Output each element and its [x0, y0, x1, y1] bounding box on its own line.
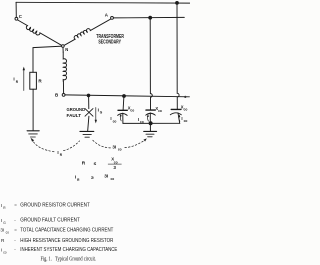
- svg-text:co: co: [184, 119, 188, 123]
- wire phase C drop: [177, 3, 179, 109]
- wire phase B bus: [65, 95, 189, 97]
- wire N to winding: [62, 46, 64, 52]
- fault X: [85, 109, 93, 117]
- terminal B: [62, 94, 65, 97]
- winding N-B: [63, 52, 66, 81]
- svg-text:Fig. 1. Typical Ground circu: Fig. 1. Typical Ground circuit.: [41, 256, 97, 262]
- svg-text:3I: 3I: [112, 144, 116, 149]
- svg-text:SECONDARY: SECONDARY: [98, 40, 121, 46]
- svg-text:=: =: [14, 203, 17, 208]
- arrow Ico3: [178, 116, 181, 121]
- ground capacitors: [144, 131, 157, 136]
- svg-text:I: I: [110, 116, 111, 121]
- svg-text:co: co: [3, 250, 7, 254]
- svg-text:N: N: [65, 47, 68, 52]
- capacitor CB upper wire: [122, 96, 125, 110]
- svg-text:I: I: [57, 150, 58, 155]
- terminal A: [111, 17, 114, 20]
- node capacitor ground tap: [149, 121, 153, 125]
- winding N-A: [61, 16, 112, 46]
- svg-text:3I: 3I: [0, 228, 4, 233]
- capacitor CC plates: [171, 108, 181, 110]
- svg-text:I: I: [1, 203, 2, 208]
- svg-text:I: I: [1, 218, 2, 223]
- wire resistor to ground: [32, 89, 34, 130]
- svg-text:=: =: [14, 227, 17, 232]
- arrow IG: [95, 108, 97, 121]
- dashed arc fault-ground to 3Ico: [93, 140, 111, 148]
- svg-text:co: co: [158, 109, 162, 113]
- dashed arc 3Ico to capacitor-ground: [125, 140, 146, 148]
- capacitor CA plates: [146, 109, 155, 111]
- svg-text:R: R: [82, 160, 86, 166]
- node ground fault tap: [87, 94, 91, 98]
- resistor R: [30, 72, 37, 89]
- wire fault drop: [88, 96, 90, 109]
- svg-text:co: co: [118, 148, 122, 152]
- svg-text:co: co: [130, 108, 134, 112]
- node phase A tap: [148, 16, 152, 20]
- capacitor CC lower wire: [178, 113, 180, 123]
- capacitor CB lower wire: [122, 113, 124, 123]
- wire phase A drop: [150, 18, 152, 110]
- svg-text:co: co: [6, 231, 10, 235]
- svg-text:TOTAL CAPACITANCE CHARGING CUR: TOTAL CAPACITANCE CHARGING CURRENT: [20, 228, 114, 234]
- wire winding to terminal B: [62, 81, 64, 93]
- svg-text:INHERENT SYSTEM CHARGING CAPAC: INHERENT SYSTEM CHARGING CAPACITANCE: [20, 247, 117, 253]
- svg-text:HIGH RESISTANCE GROUNDING RESI: HIGH RESISTANCE GROUNDING RESISTOR: [20, 238, 113, 244]
- wire capacitor bottom bus: [123, 122, 180, 124]
- node top-right junction: [175, 1, 179, 5]
- capacitor CB plates: [118, 109, 127, 111]
- ground fault: [80, 131, 94, 137]
- svg-text:co: co: [111, 177, 115, 181]
- capacitor CA lower wire: [149, 113, 151, 123]
- wire N to resistor branch: [33, 46, 63, 72]
- terminal C: [15, 17, 18, 20]
- arrow IR: [23, 69, 25, 91]
- svg-text:co: co: [140, 120, 144, 124]
- wire capacitor ground stem: [149, 123, 151, 131]
- wire drop to terminal C: [15, 2, 17, 17]
- node capacitor tap B: [122, 94, 126, 98]
- svg-text:co: co: [113, 119, 117, 123]
- svg-text:GROUND FAULT CURRENT: GROUND FAULT CURRENT: [20, 218, 80, 224]
- svg-text:3: 3: [113, 165, 116, 170]
- svg-text:3I: 3I: [104, 174, 109, 180]
- dashed arc resistor-ground to IR: [32, 139, 55, 152]
- wire fault to ground: [88, 116, 89, 131]
- svg-text:I: I: [13, 77, 14, 82]
- wire phase A bus: [114, 16, 185, 19]
- dashed arc IR to fault-ground: [64, 141, 80, 151]
- svg-text:GROUND RESISTOR CURRENT: GROUND RESISTOR CURRENT: [20, 203, 90, 209]
- svg-text:co: co: [184, 107, 188, 111]
- wire top bus phase C: [16, 1, 190, 4]
- svg-text:I: I: [181, 116, 182, 121]
- node speck on B bus: [184, 96, 186, 98]
- node N: [62, 45, 65, 48]
- svg-text:I: I: [138, 117, 139, 122]
- winding C-N: [16, 20, 63, 49]
- ground resistor: [27, 131, 39, 137]
- arrow Ico1: [119, 115, 122, 121]
- svg-text:I: I: [1, 247, 2, 252]
- svg-text:I: I: [98, 107, 99, 112]
- svg-text:FAULT: FAULT: [67, 113, 82, 118]
- arrow Ico2: [147, 116, 150, 121]
- svg-text:GROUND: GROUND: [67, 107, 86, 112]
